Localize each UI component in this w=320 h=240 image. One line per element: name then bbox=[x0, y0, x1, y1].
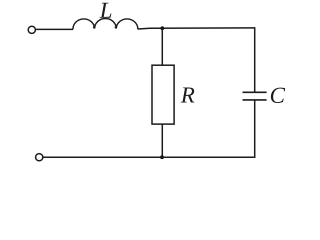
wire: top-left terminal to inductor bbox=[36, 28, 73, 30]
label C bbox=[271, 88, 285, 103]
inductor cusp blob 2 bbox=[115, 26, 118, 29]
inductor cusp blob 1 bbox=[93, 26, 96, 29]
wire: resistor bottom to bottom junction bbox=[161, 124, 163, 157]
wire: right branch vertical from top corner to capacitor bbox=[254, 27, 256, 92]
terminal T2 (bottom-left input) bbox=[36, 154, 43, 161]
inductor L bbox=[73, 19, 138, 30]
wire: junction to resistor top bbox=[161, 28, 163, 65]
capacitor C bbox=[243, 92, 267, 100]
label R bbox=[181, 87, 195, 102]
resistor R bbox=[152, 65, 174, 124]
wire: capacitor bottom to bottom-right corner bbox=[254, 100, 256, 158]
label L bbox=[99, 3, 111, 18]
node: bottom junction dot bbox=[160, 155, 164, 159]
wire: bottom rail bbox=[43, 156, 255, 158]
node: top junction dot bbox=[160, 26, 164, 30]
terminal T1 (top-left input) bbox=[28, 26, 35, 33]
wire: inductor to top-right corner bbox=[138, 28, 255, 29]
